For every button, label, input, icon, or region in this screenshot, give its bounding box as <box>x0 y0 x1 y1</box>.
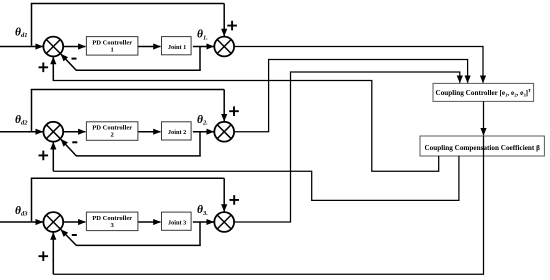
wire: compensation output 1 routed to S1a bottom <box>53 81 438 172</box>
wire: compensation output 3 through box, bottom run to S3a <box>53 136 483 274</box>
wire: feedforward line of loop 2 <box>31 89 224 91</box>
label + at S3a bottom input <box>39 251 49 261</box>
label - at summing junction S1a <box>72 58 77 60</box>
svg-text:PD Controller: PD Controller <box>92 39 132 46</box>
block: Coupling Compensation Coefficient beta <box>420 136 544 156</box>
summing junction S2b (circle with X) <box>214 122 234 142</box>
wire: theta_3 feedback drop <box>199 222 201 245</box>
summing junction S1b (circle with X) <box>214 37 234 57</box>
wire: feedforward line of loop 1 <box>31 3 224 5</box>
wire: theta_d2 branch up to feedforward line <box>31 90 33 131</box>
svg-text:PD Controller: PD Controller <box>92 125 132 132</box>
summing junction S3a (circle with X) <box>43 212 63 232</box>
label + at S1a bottom input <box>39 63 49 73</box>
wire: input theta_d3 into summing junction S3a <box>0 221 43 223</box>
wire: feedforward drop into summing junction S2b (+) <box>223 90 225 122</box>
block: Joint 3 <box>162 212 192 230</box>
wire: feedforward drop into summing junction S3b (+) <box>223 178 225 211</box>
block: PD Controller 2 <box>86 122 137 141</box>
label + at S2a bottom input <box>39 151 49 161</box>
label + at summing junction S3b <box>229 195 239 205</box>
wire: compensation output 2 routed to S2a bottom <box>53 156 459 200</box>
wire: coupling compensation input up into S1a bottom (+) <box>52 57 54 81</box>
svg-text:PD Controller: PD Controller <box>92 215 132 222</box>
wire: PD Controller 3 to Joint 3 <box>138 221 160 223</box>
wire: theta_d1 branch up to feedforward line <box>31 4 33 46</box>
wire: Joint 1 output theta_1 to summing junction S1b <box>193 46 214 48</box>
summing junction S1a (circle with X) <box>43 37 63 57</box>
wire: theta_2 feedback drop <box>199 132 201 156</box>
wire: coupling compensation input up into S3a bottom (+) <box>52 233 54 275</box>
block: Joint 1 <box>162 37 192 55</box>
svg-text:Joint 1: Joint 1 <box>168 44 186 51</box>
wire: Joint 3 output theta_3 to summing junction S3b <box>193 221 214 223</box>
label - at summing junction S3a <box>72 234 77 236</box>
svg-text:Joint 2: Joint 2 <box>168 129 186 136</box>
wire: theta_d3 branch up to feedforward line <box>31 178 33 221</box>
svg-text:1: 1 <box>111 46 114 53</box>
block: PD Controller 3 <box>86 212 137 231</box>
block: Coupling Controller [e1, e2, e3]^T <box>433 83 534 101</box>
wire: Joint 2 output theta_2 to summing junction S2b <box>193 131 214 133</box>
wire: S3a output to PD Controller 3 <box>63 221 85 223</box>
wire: theta_3 feedback diagonal into S3a (-) <box>61 230 77 246</box>
wire: PD Controller 1 to Joint 1 <box>138 46 160 48</box>
wire: theta_1 feedback horizontal run <box>76 69 201 71</box>
summing junction S2a (circle with X) <box>43 122 63 142</box>
wire: S1a output to PD Controller 1 <box>63 46 85 48</box>
svg-text:Coupling Compensation Coeffici: Coupling Compensation Coefficient β <box>424 144 540 152</box>
svg-text:Joint 3: Joint 3 <box>168 219 186 226</box>
block: Joint 2 <box>162 122 192 140</box>
wire: theta_1 feedback diagonal into S1a (-) <box>61 54 77 70</box>
wire: theta_3 feedback horizontal run <box>76 244 201 246</box>
label + at summing junction S1b <box>227 21 237 31</box>
wire: Coupling Controller output down into Compensation block <box>483 101 485 135</box>
wire: theta_2 feedback horizontal run <box>76 155 201 157</box>
block: PD Controller 1 <box>86 37 137 56</box>
wire: e1 from S1b right then down into Coupling Controller <box>234 47 483 83</box>
summing junction S3b (circle with X) <box>214 212 234 232</box>
wire: theta_1 feedback drop <box>199 47 201 71</box>
wire: theta_2 feedback diagonal into S2a (-) <box>61 139 77 156</box>
wire: input theta_d1 into summing junction S1a <box>0 46 43 48</box>
wire: coupling compensation input up into S2a bottom (+) <box>52 142 54 171</box>
wire: feedforward drop into summing junction S1b (+) <box>223 4 225 37</box>
wire: feedforward line of loop 3 <box>31 177 224 179</box>
wire: S2a output to PD Controller 2 <box>63 131 85 133</box>
label - at summing junction S2a <box>72 141 77 143</box>
wire: e3 from S3b right, up and into Coupling Controller <box>234 72 460 222</box>
wire: input theta_d2 into summing junction S2a <box>0 131 43 133</box>
label + at summing junction S2b <box>229 106 239 116</box>
svg-text:Coupling Controller [e1, e2, e: Coupling Controller [e1, e2, e3]T <box>436 88 532 97</box>
wire: e2 from S2b right, up and into Coupling Controller <box>234 60 468 132</box>
wire: PD Controller 2 to Joint 2 <box>138 131 160 133</box>
